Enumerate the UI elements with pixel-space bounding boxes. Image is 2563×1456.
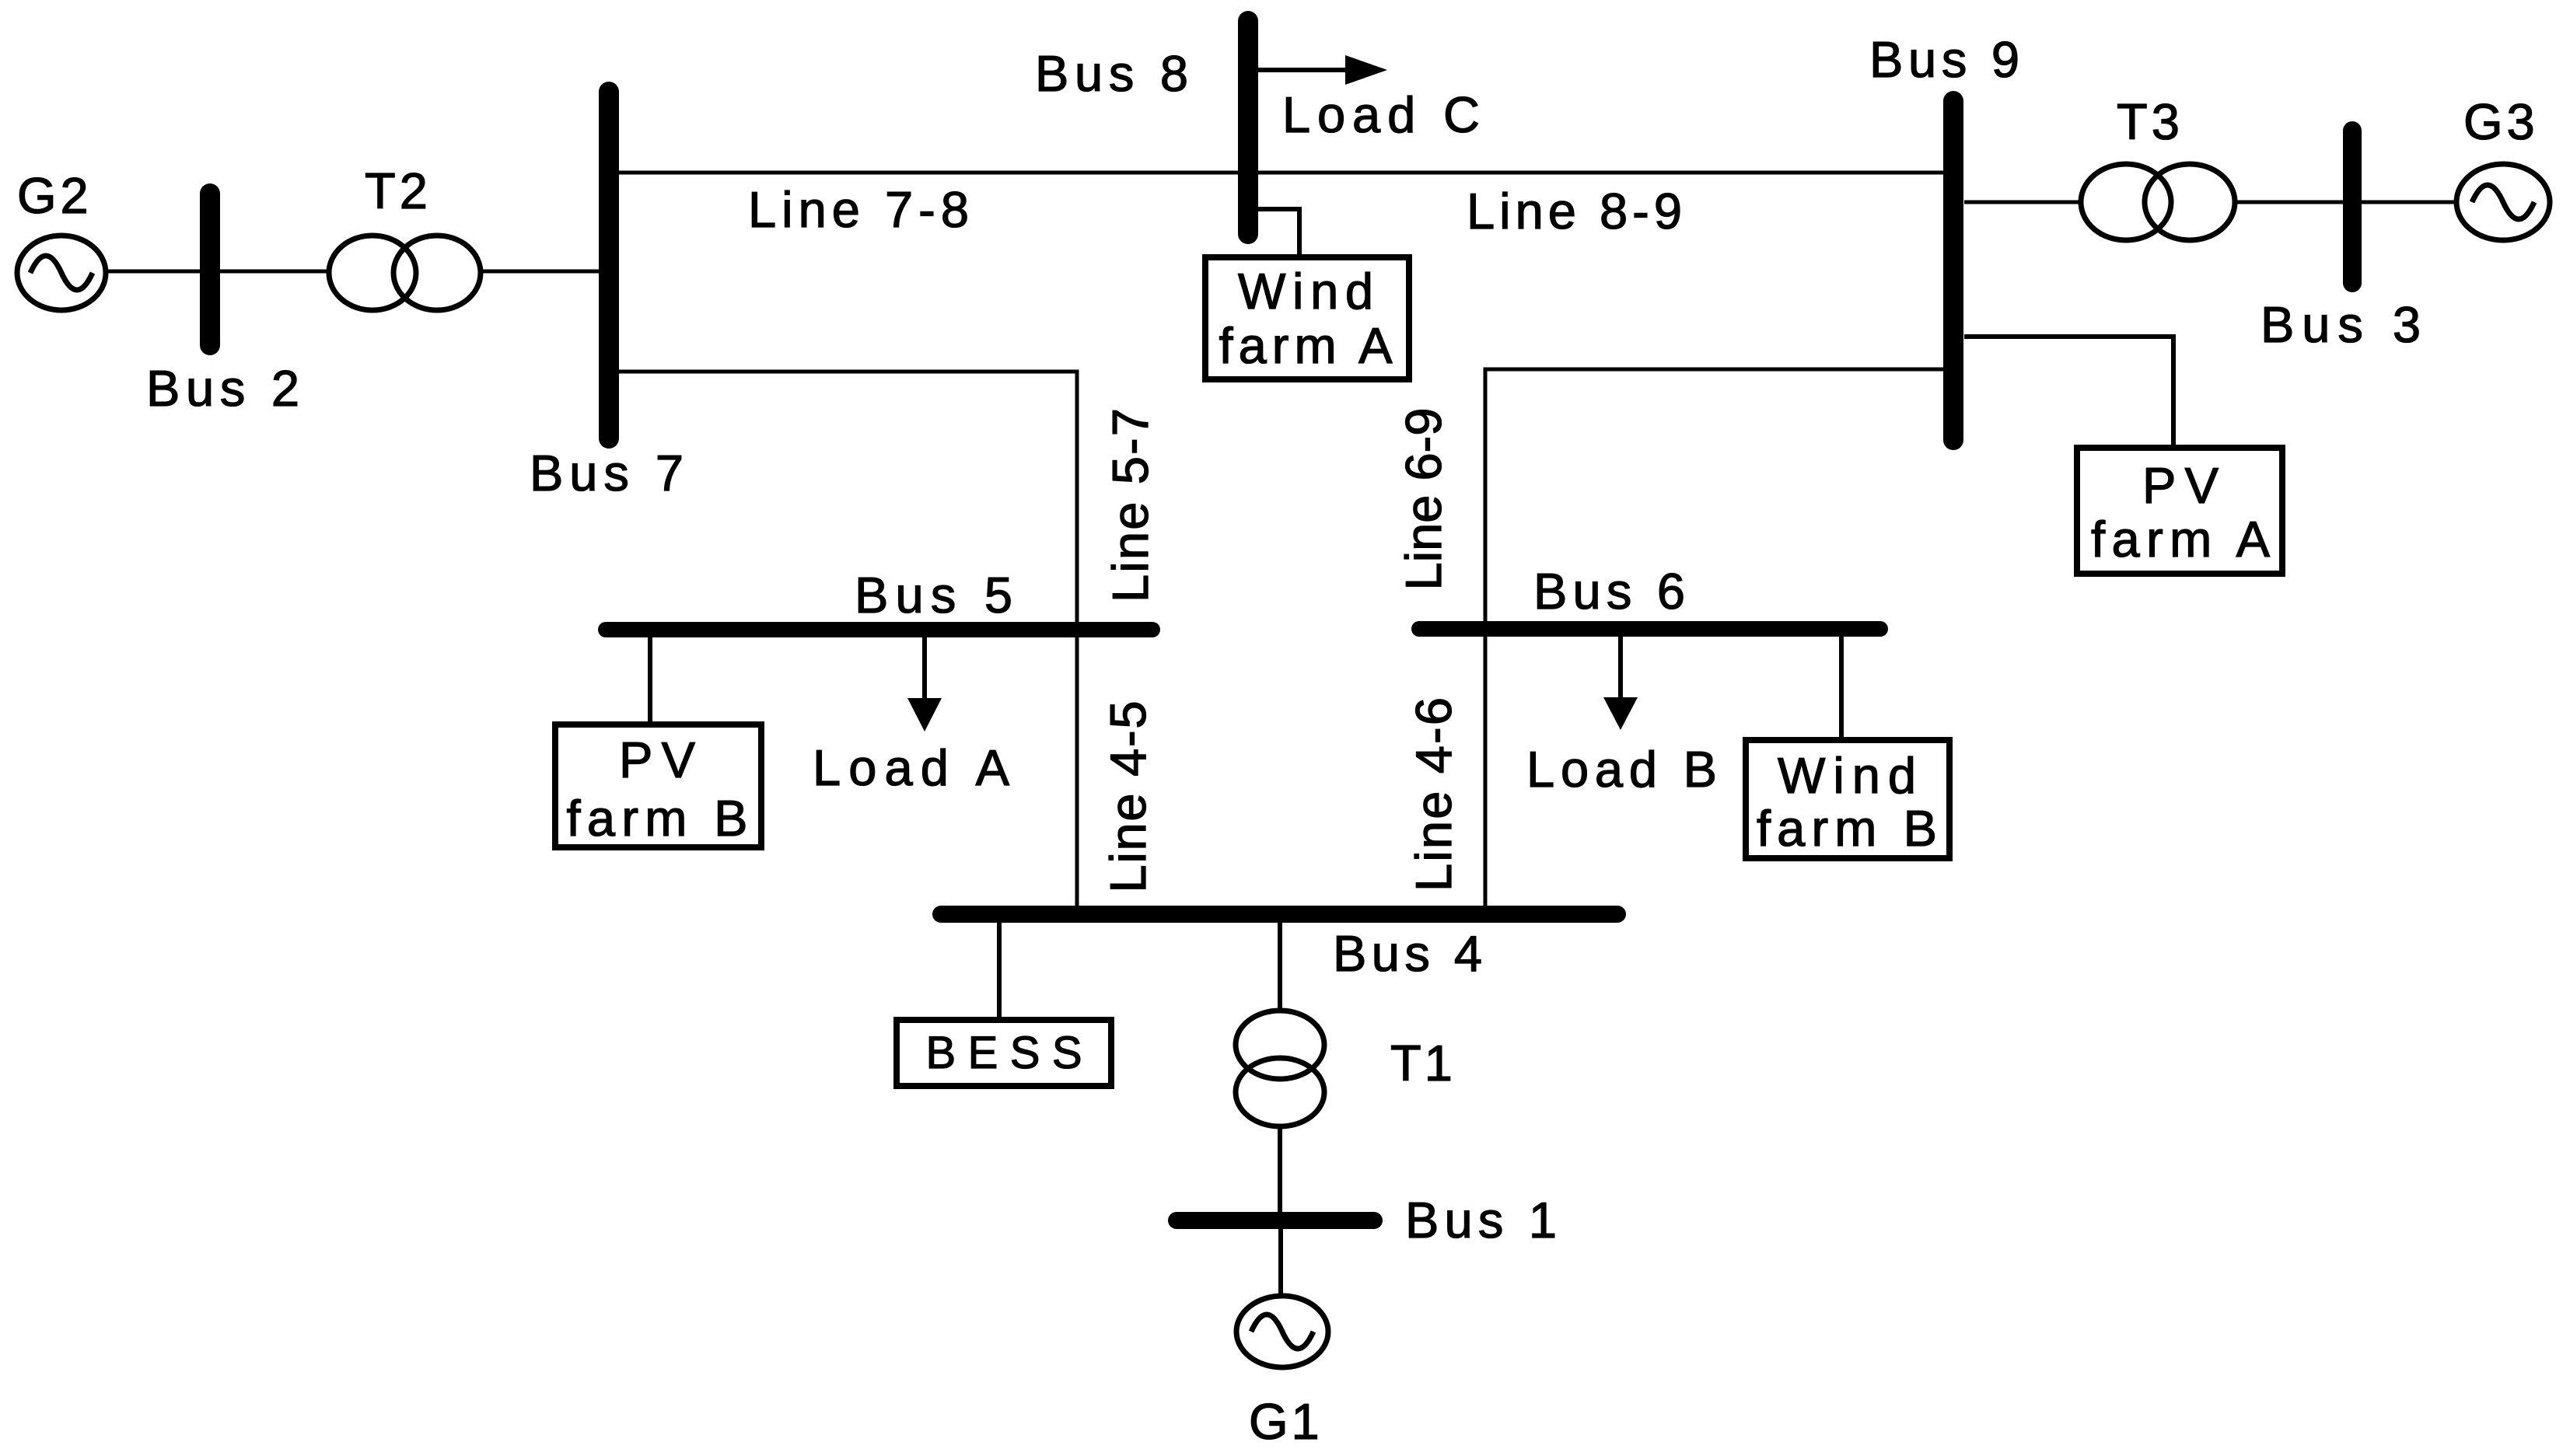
load Load A arrow xyxy=(907,636,942,731)
svg-text:Bus 1: Bus 1 xyxy=(1405,1192,1557,1248)
svg-text:T2: T2 xyxy=(365,162,432,219)
wire Bus 8 to Wind farm A xyxy=(1258,209,1299,257)
svg-text:farm A: farm A xyxy=(1219,317,1393,374)
bus Bus 8 xyxy=(1238,21,1258,234)
bus Bus 6 xyxy=(1419,621,1880,637)
box PV farm A xyxy=(2077,448,2282,574)
svg-text:Bus 7: Bus 7 xyxy=(530,445,684,501)
svg-text:G1: G1 xyxy=(1249,1393,1323,1450)
bus Bus 9 xyxy=(1943,101,1963,440)
svg-text:Line 4-5: Line 4-5 xyxy=(1100,701,1156,893)
bus Bus 3 xyxy=(2343,131,2362,283)
box Wind farm A xyxy=(1205,257,1409,379)
svg-text:farm B: farm B xyxy=(567,790,748,847)
wire Bus 5 to PV farm B xyxy=(648,637,652,725)
svg-text:Line 6-9: Line 6-9 xyxy=(1395,408,1452,591)
svg-text:farm B: farm B xyxy=(1757,800,1937,857)
wire Bus 6 to Wind farm B xyxy=(1839,637,1844,740)
generator G2 xyxy=(17,236,106,310)
svg-text:Bus 8: Bus 8 xyxy=(1035,45,1188,102)
wire Line 7-8 / Line 8-9 (Bus 7 to Bus 8 to Bus 9) xyxy=(609,171,1953,175)
wire T3 to Bus 3 xyxy=(2235,201,2343,204)
bus Bus 4 xyxy=(941,906,1617,923)
box PV farm B xyxy=(555,725,761,847)
transformer T1 xyxy=(1236,1011,1324,1126)
wire T2 to Bus 7 xyxy=(481,270,609,274)
wire Bus 1 to G1 xyxy=(1278,1229,1283,1297)
wire Bus 3 to G3 xyxy=(2362,201,2456,204)
svg-text:Bus 2: Bus 2 xyxy=(146,360,299,417)
wire Bus 9 to PV farm A xyxy=(1964,337,2173,448)
transformer T2 xyxy=(329,236,481,310)
svg-text:Bus 5: Bus 5 xyxy=(855,567,1012,623)
wire Bus 9 to T3 xyxy=(1964,201,2081,204)
wire T1 to Bus 1 xyxy=(1278,1126,1282,1212)
wire Line 6-9 (Bus 4 up through Bus 6, corner right to Bus 9) xyxy=(1485,369,1943,906)
box BESS xyxy=(897,1020,1111,1086)
svg-text:farm A: farm A xyxy=(2091,511,2271,567)
bus Bus 7 xyxy=(599,92,619,438)
wire G2 to Bus 2 to T2 xyxy=(106,270,330,274)
wire Bus 4 to BESS xyxy=(997,923,1002,1020)
svg-text:Bus 9: Bus 9 xyxy=(1869,31,2019,88)
svg-text:G3: G3 xyxy=(2463,93,2539,150)
box Wind farm B xyxy=(1746,740,1949,858)
svg-text:G2: G2 xyxy=(17,167,93,224)
svg-text:Bus 4: Bus 4 xyxy=(1333,925,1482,982)
wire Bus 4 to T1 xyxy=(1278,923,1282,1012)
svg-text:T1: T1 xyxy=(1390,1035,1456,1091)
bus Bus 5 xyxy=(606,622,1152,637)
load Load C arrow xyxy=(1258,55,1387,85)
bus Bus 1 xyxy=(1177,1212,1374,1229)
svg-text:Bus 6: Bus 6 xyxy=(1533,563,1685,620)
load Load B arrow xyxy=(1603,636,1638,730)
transformer T3 xyxy=(2081,164,2235,240)
svg-text:T3: T3 xyxy=(2117,93,2184,150)
generator G3 xyxy=(2456,164,2550,240)
svg-text:Bus 3: Bus 3 xyxy=(2261,296,2421,353)
generator G1 xyxy=(1236,1296,1328,1367)
bus Bus 2 xyxy=(200,194,220,345)
wire Line 5-7 (Bus 7 right side, corner down through Bus 5 to Bus 4) xyxy=(619,372,1077,906)
